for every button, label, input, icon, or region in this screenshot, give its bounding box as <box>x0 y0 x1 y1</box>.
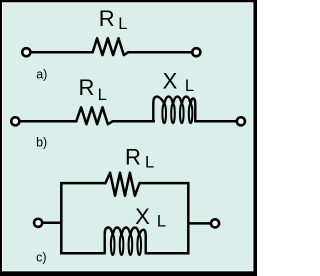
svg-text:R: R <box>99 6 115 31</box>
svg-text:L: L <box>98 86 107 104</box>
terminal c left <box>34 219 42 227</box>
resistor R_L (b) <box>76 107 112 124</box>
wire a right <box>127 51 192 54</box>
svg-text:R: R <box>125 144 141 169</box>
wire c left <box>43 222 62 225</box>
parallel rect left edge <box>60 182 63 255</box>
terminal b right <box>237 117 245 125</box>
svg-text:L: L <box>157 212 166 230</box>
wire b middle <box>112 120 155 123</box>
terminal b left <box>11 117 19 125</box>
terminal a right <box>192 48 200 56</box>
svg-text:a): a) <box>36 67 47 81</box>
resistor R_L (c) <box>105 173 139 196</box>
svg-text:L: L <box>118 15 127 33</box>
svg-text:b): b) <box>36 136 47 150</box>
svg-text:X: X <box>135 204 150 229</box>
svg-text:c): c) <box>36 251 46 265</box>
wire b left <box>20 120 77 123</box>
terminal c right <box>211 219 219 227</box>
svg-text:R: R <box>79 75 95 100</box>
wire b right <box>194 120 236 123</box>
terminal a left <box>22 48 30 56</box>
rect top edge left part <box>61 182 106 185</box>
wire c right <box>188 222 210 225</box>
wire a left <box>31 51 94 54</box>
parallel rect right edge <box>187 182 190 255</box>
svg-text:L: L <box>185 77 194 95</box>
svg-text:X: X <box>163 68 178 93</box>
rect bottom edge left part <box>61 252 105 255</box>
rect top edge right part <box>139 182 189 185</box>
resistor R_L (a) <box>93 38 129 55</box>
rect bottom edge right part <box>145 252 189 255</box>
inductor X_L (c) <box>105 228 113 254</box>
svg-text:L: L <box>145 154 154 172</box>
inductor X_L (b) <box>153 97 164 122</box>
